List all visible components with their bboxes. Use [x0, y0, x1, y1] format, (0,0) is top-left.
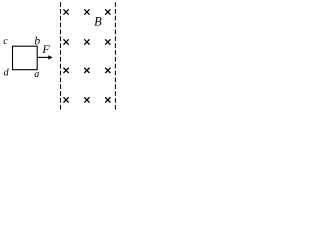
- flux cross r3c2: [84, 68, 89, 73]
- flux cross r2c3: [105, 39, 110, 44]
- flux cross r3c1: [63, 68, 68, 73]
- svg-text:b: b: [34, 36, 40, 48]
- svg-text:F: F: [41, 42, 50, 56]
- flux cross r1c3: [105, 9, 110, 14]
- flux cross r3c3: [105, 68, 110, 73]
- flux cross r4c1: [63, 97, 68, 102]
- flux cross r4c2: [84, 97, 89, 102]
- flux cross r1c2: [84, 9, 89, 14]
- field boundary left dashed line: [60, 2, 62, 110]
- force arrow shaft: [38, 56, 50, 58]
- svg-text:d: d: [4, 68, 10, 79]
- flux cross r4c3: [105, 97, 110, 102]
- flux cross r2c1: [63, 39, 68, 44]
- svg-text:c: c: [3, 36, 8, 47]
- field boundary right dashed line: [114, 2, 116, 110]
- flux cross r2c2: [84, 39, 89, 44]
- svg-text:a: a: [34, 69, 39, 80]
- svg-text:B: B: [94, 15, 102, 29]
- force arrow head: [48, 55, 52, 59]
- flux cross r1c1: [63, 9, 68, 14]
- square loop cbad: [13, 46, 38, 69]
